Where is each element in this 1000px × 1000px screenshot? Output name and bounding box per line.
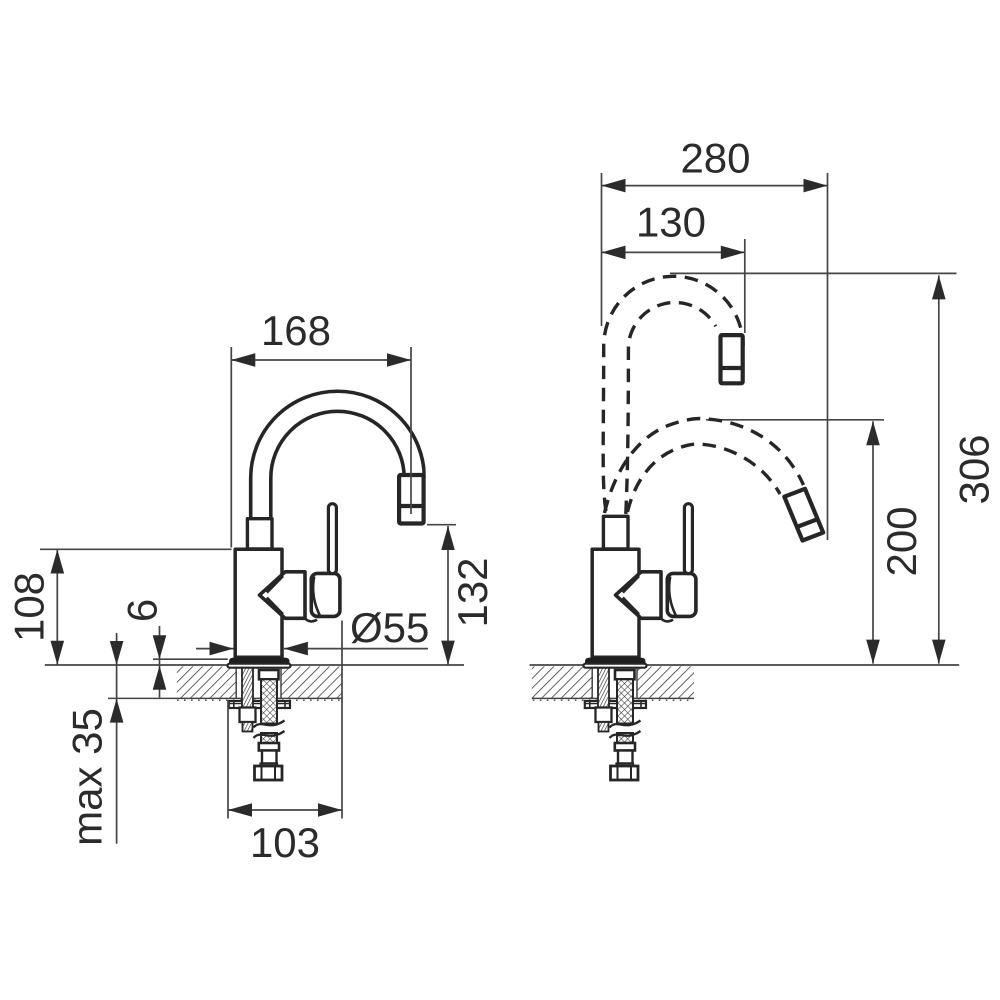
hose break symbol right [610, 721, 641, 728]
dim diameter 55 line [196, 648, 234, 650]
dim 132 line [447, 526, 449, 665]
counter bottom edge right view [532, 697, 694, 699]
arrow 108 down [51, 641, 65, 665]
svg-text:6: 6 [119, 599, 166, 622]
hose fitting collar right [615, 743, 635, 751]
dim 108 line [56, 550, 58, 665]
svg-text:200: 200 [878, 506, 925, 576]
arrow 306 up [932, 275, 946, 299]
arrow 168 right [387, 353, 411, 367]
dim 130 extension line [744, 239, 746, 333]
svg-text:max 35: max 35 [64, 708, 111, 846]
spout arc outer left view [251, 391, 425, 519]
arrow 132 up [441, 526, 455, 550]
valve cone wedge right view [616, 572, 662, 619]
dim 103 line [228, 809, 342, 811]
hose fitting tube right [618, 751, 633, 764]
handle lever right view [684, 504, 692, 574]
spout aerator line upper position [720, 366, 745, 370]
dim 306 line [938, 275, 940, 663]
dim 6 line [159, 626, 161, 698]
handle lever left view [328, 504, 336, 574]
dim 306 reference line [670, 272, 957, 274]
arrow 103 left [228, 803, 252, 817]
washer plate under counter left [229, 701, 290, 708]
arrow diameter55 right [210, 642, 234, 656]
svg-text:Ø55: Ø55 [350, 604, 429, 651]
braided hose upper left [261, 679, 277, 723]
spout tip box upper position [721, 335, 743, 383]
hose top collar right [615, 670, 635, 679]
hose fitting tube left [262, 751, 277, 764]
countertop hatch right view right part [637, 666, 694, 698]
countertop surface line left view [45, 664, 464, 666]
dim 200 line [872, 421, 874, 663]
counter hole wall left view [235, 666, 237, 698]
arrow diameter55 left [284, 642, 308, 656]
dim 132 reference line [427, 524, 456, 526]
arrow 280 left [602, 179, 626, 193]
joint arc under handle left view [306, 619, 317, 621]
dashed spout upper position outer [603, 276, 743, 511]
arrow 108 up [51, 550, 65, 574]
dashed spout lower position outer [605, 419, 804, 514]
dim 6 reference line [153, 658, 228, 660]
counter hole wall right view [591, 666, 593, 698]
arrow 200 up [866, 421, 880, 445]
stud nut left [240, 708, 256, 723]
faucet body left view [235, 549, 282, 657]
dim 130 line [602, 251, 745, 253]
stud thread below nut left [243, 722, 253, 732]
patch right of tip box [426, 446, 431, 522]
arrow 103 right [318, 803, 342, 817]
arrow 130 left [602, 246, 626, 260]
base flange plate right view [584, 664, 647, 668]
hose fitting step left [261, 764, 278, 769]
svg-text:280: 280 [680, 135, 750, 182]
dim 200 reference line [706, 419, 884, 421]
hose end nut right [611, 766, 639, 780]
braided hose lower left [261, 733, 277, 744]
dashed spout lower position inner [628, 444, 781, 512]
hose end nut left [255, 766, 283, 780]
arrow 132 down [441, 641, 455, 665]
spout tip box left view [399, 475, 424, 524]
wedge chamfer lines right view [623, 576, 639, 593]
hose fitting step right [617, 764, 634, 769]
stud thread below nut right [599, 722, 609, 732]
mounting stud threaded right [598, 667, 609, 708]
dim 103 extension lines [227, 701, 229, 819]
dim 280 extension lines [601, 173, 603, 326]
arrow 280 right [804, 179, 828, 193]
arrow 306 down [932, 640, 946, 664]
countertop hatch left view right part [281, 666, 342, 698]
valve cone wedge left view [260, 572, 306, 619]
handle body left view [311, 573, 340, 616]
handle front cap line left view [313, 577, 321, 618]
counter bottom edge left view [108, 697, 342, 699]
joint arc under handle right view [662, 619, 673, 621]
dim 280 line [602, 185, 828, 187]
braided hose upper right [617, 679, 633, 723]
spout aerator line left view [398, 504, 425, 508]
braided hose lower right [617, 733, 633, 744]
handle front cap line right view [669, 577, 677, 618]
spout arc inner left view [271, 411, 404, 519]
arrow 130 right [721, 246, 745, 260]
pipe collar right view [603, 516, 628, 549]
pipe collar left view [247, 519, 272, 549]
dim 108 reference line [40, 548, 232, 550]
countertop surface line right view [530, 664, 960, 666]
hose top collar left [259, 670, 279, 679]
wedge chamfer lines left view [267, 576, 283, 593]
arrow max35 up [110, 699, 124, 723]
arrow 200 down [866, 640, 880, 664]
spout tip box lower position [784, 489, 823, 541]
dim max35 line [116, 633, 118, 844]
base flange plate left view [228, 664, 291, 668]
arrow 6 down [153, 635, 167, 659]
svg-text:130: 130 [636, 199, 706, 246]
mounting stud threaded left [242, 667, 253, 708]
dim 168 extension lines [230, 347, 232, 548]
svg-text:108: 108 [6, 572, 53, 642]
arrow max35 down [110, 641, 124, 665]
hose break symbol left [254, 721, 285, 728]
countertop hatch right view left part [532, 666, 592, 698]
base flange right view [585, 658, 646, 665]
stud nut right [596, 708, 612, 723]
washer plate under counter right [585, 701, 646, 708]
hose fitting collar left [259, 743, 279, 751]
svg-text:168: 168 [261, 307, 331, 354]
arrow 6 up [153, 666, 167, 690]
svg-text:306: 306 [951, 434, 998, 504]
dashed spout upper position inner [626, 302, 716, 514]
svg-text:132: 132 [449, 557, 496, 627]
faucet body right view [592, 549, 639, 657]
dim 168 line [232, 359, 411, 361]
svg-text:103: 103 [250, 819, 320, 866]
countertop hatch left view left part [177, 666, 236, 698]
handle body right view [667, 573, 696, 616]
base flange left view [229, 658, 290, 665]
arrow 168 left [231, 353, 255, 367]
